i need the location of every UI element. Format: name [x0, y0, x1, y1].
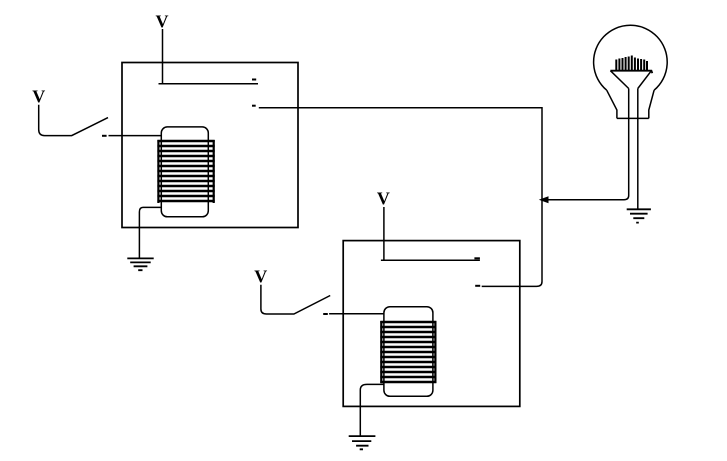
svg-text:V: V	[32, 87, 45, 107]
svg-text:V: V	[377, 188, 390, 208]
svg-text:V: V	[156, 12, 169, 32]
svg-text:V: V	[254, 267, 267, 287]
